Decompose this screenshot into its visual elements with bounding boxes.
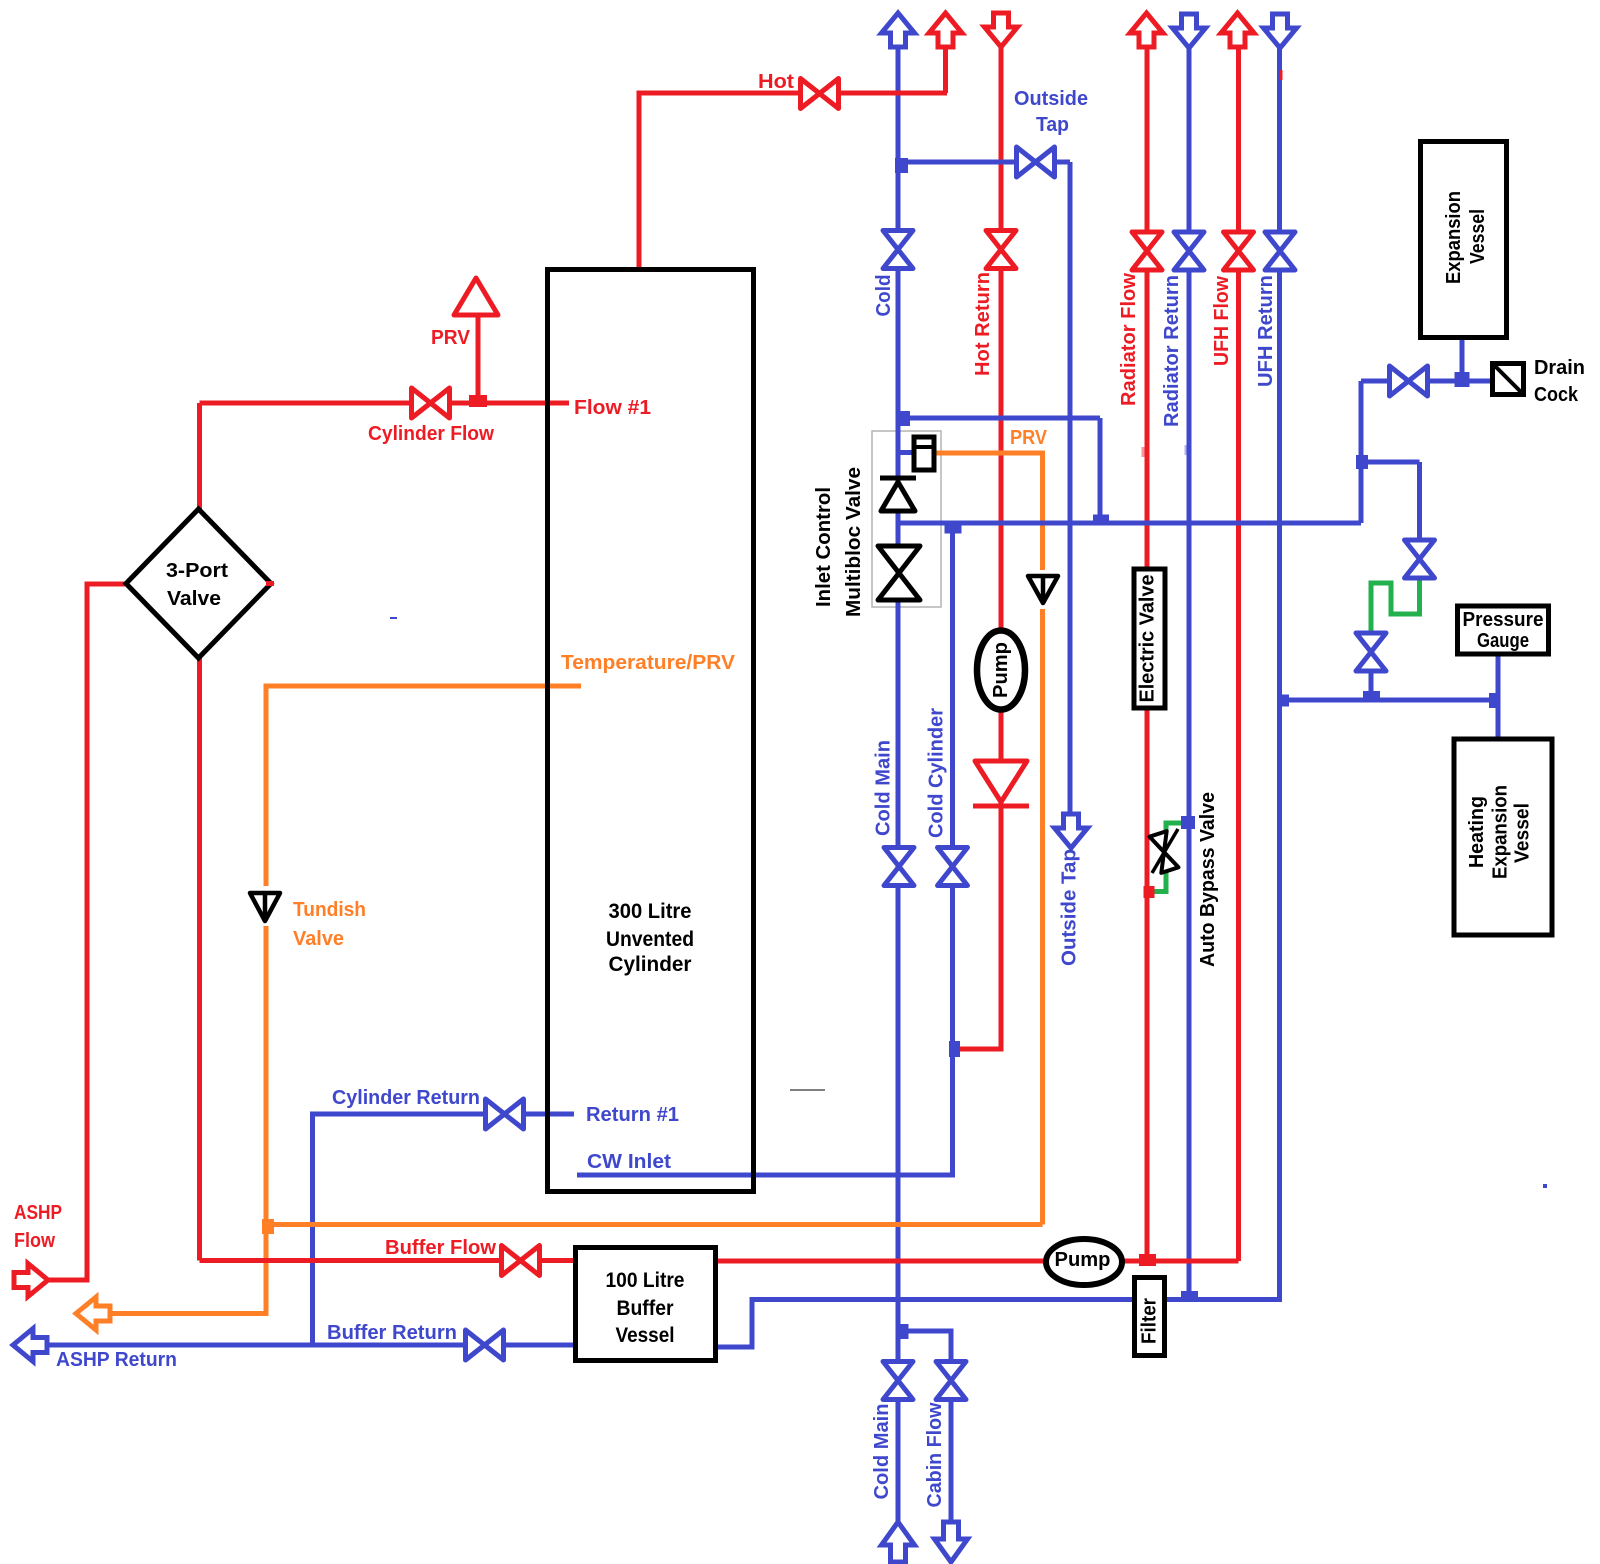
wire ufh flow vertical	[1236, 46, 1241, 1261]
3-port valve right port dot	[266, 581, 274, 586]
vessel expansion (potable)	[1421, 142, 1507, 338]
svg-text:Cold Main: Cold Main	[871, 1404, 893, 1500]
node cold feed tee y418	[899, 411, 910, 426]
node ufh return header tee	[1277, 695, 1289, 707]
svg-text:Electric Valve: Electric Valve	[1137, 575, 1159, 703]
wire cold feed horizontal y523	[898, 521, 1361, 526]
wire filling loop hose	[1371, 578, 1420, 634]
svg-text:Return #1: Return #1	[586, 1104, 679, 1126]
tundish on multibloc prv line	[1028, 576, 1058, 603]
arrow radiator flow out	[1130, 13, 1163, 47]
valve cylinder flow	[412, 388, 450, 418]
valve ufh return isolating	[1265, 232, 1295, 270]
wire outside tap horizontal	[898, 160, 1070, 165]
tundish on temperature/prv line	[250, 893, 280, 921]
valve filling loop upper	[1405, 540, 1435, 578]
multibloc prv cartridge	[914, 437, 934, 470]
multibloc stop valve	[878, 546, 920, 600]
wire radiator flow vertical	[1145, 46, 1150, 1261]
wire ashp flow	[44, 584, 130, 1280]
svg-text:CW Inlet: CW Inlet	[587, 1151, 671, 1173]
wire hot from cylinder top	[639, 93, 947, 270]
wire ufh return and bottom header	[713, 48, 1280, 1347]
valve cylinder return	[486, 1099, 524, 1129]
pressure gauge box	[1458, 606, 1549, 654]
vessel 300 litre unvented cylinder	[548, 270, 754, 1192]
node auto bypass top	[1181, 816, 1195, 829]
arrow radiator return in	[1173, 14, 1206, 48]
wire cold feed y418 overlay	[898, 416, 1100, 421]
wire cold feed y523 overlay	[898, 521, 1361, 526]
svg-text:Heating: Heating	[1466, 796, 1488, 868]
wire heating header y700	[1280, 698, 1498, 703]
svg-text:Expansion: Expansion	[1490, 785, 1512, 879]
vessel 100 litre buffer	[576, 1248, 716, 1361]
valve cold isolating	[883, 231, 913, 269]
svg-text:PRV: PRV	[431, 327, 471, 349]
svg-text:Vessel: Vessel	[1467, 209, 1489, 264]
svg-text:UFH Return: UFH Return	[1255, 275, 1277, 387]
check valve on hot return	[973, 761, 1029, 806]
wire outside tap vertical	[1068, 162, 1073, 816]
valve cold main bottom	[883, 1362, 913, 1400]
valve hot	[801, 79, 839, 109]
valve ufh flow isolating	[1224, 232, 1254, 270]
valve buffer return	[466, 1330, 504, 1360]
node pressure gauge tee	[1489, 693, 1500, 708]
arrow cold supply	[882, 13, 915, 47]
svg-text:Inlet Control: Inlet Control	[813, 487, 835, 607]
auto bypass valve symbol	[1150, 829, 1179, 873]
wire expansion vessel connector	[1460, 337, 1465, 383]
node radiator flow into pump line	[1139, 1254, 1156, 1266]
svg-text:Gauge: Gauge	[1477, 630, 1529, 652]
svg-text:Cock: Cock	[1534, 384, 1579, 406]
prv relief triangle	[454, 278, 498, 315]
node expansion vessel tee	[1455, 372, 1470, 387]
valve radiator return isolating	[1174, 232, 1204, 270]
svg-text:Temperature/PRV: Temperature/PRV	[561, 652, 736, 674]
wire ashp return / buffer return	[46, 1343, 578, 1348]
wire cylinder return	[313, 1114, 575, 1345]
node cold/outside-tap tee	[895, 158, 908, 173]
svg-text:ASHP Return: ASHP Return	[56, 1349, 177, 1371]
wire prv discharge horizontal y1224	[266, 1222, 1043, 1227]
wire hot return vertical	[953, 46, 1001, 1049]
svg-text:Unvented: Unvented	[606, 928, 694, 951]
svg-text:100 Litre: 100 Litre	[606, 1269, 685, 1292]
svg-text:Outside: Outside	[1014, 88, 1088, 110]
svg-text:Filter: Filter	[1139, 1298, 1161, 1344]
wire buffer flow to pumps and ufh	[713, 1259, 1239, 1264]
3-port valve diamond	[126, 509, 271, 658]
wire below filling valve2	[1369, 670, 1374, 700]
multibloc enclosure	[872, 431, 941, 607]
svg-text:3-Port: 3-Port	[166, 560, 228, 582]
svg-text:Pump: Pump	[1055, 1249, 1111, 1271]
svg-text:Buffer Return: Buffer Return	[327, 1322, 457, 1344]
svg-text:Outside Tap: Outside Tap	[1059, 849, 1081, 966]
svg-text:Hot Return: Hot Return	[972, 272, 994, 376]
svg-text:PRV: PRV	[1010, 427, 1048, 449]
wire cylinder flow y403	[200, 401, 570, 406]
arrow outside tap out	[1055, 814, 1088, 848]
wire filling riser x1361	[1359, 381, 1364, 523]
node auto bypass bottom	[1144, 886, 1155, 898]
svg-text:Cylinder Flow: Cylinder Flow	[368, 423, 494, 445]
valve filling loop lower	[1356, 633, 1386, 671]
wire buffer flow left	[200, 1258, 579, 1263]
wire temperature/prv discharge	[108, 686, 581, 1314]
wire auto bypass bottom link	[1152, 872, 1166, 892]
svg-text:Expansion: Expansion	[1443, 191, 1465, 284]
wire hot arrow riser	[943, 48, 948, 93]
svg-text:Valve: Valve	[167, 588, 221, 610]
svg-text:Auto Bypass Valve: Auto Bypass Valve	[1197, 792, 1219, 967]
svg-text:Tundish: Tundish	[293, 899, 366, 921]
arrow ufh return in	[1264, 14, 1297, 48]
valve outside tap	[1017, 147, 1055, 177]
pump heating (buffer flow)	[1046, 1239, 1122, 1285]
svg-text:Vessel: Vessel	[1512, 803, 1534, 863]
svg-text:Drain: Drain	[1534, 357, 1585, 379]
svg-text:Cylinder Return: Cylinder Return	[332, 1087, 480, 1109]
arrow cold main supply	[882, 1522, 915, 1562]
node filling riser tee y462	[1356, 455, 1368, 469]
wire multibloc prv discharge	[934, 453, 1043, 1225]
wire cold main bottom tee to cabin flow	[898, 1331, 951, 1522]
svg-text:Tap: Tap	[1036, 114, 1069, 136]
stray grey line artifact	[790, 1089, 825, 1091]
wire pressure gauge connector	[1496, 654, 1501, 740]
wire auto bypass top link	[1166, 823, 1186, 833]
valve cold main mid	[884, 848, 914, 886]
node prv tee	[469, 395, 487, 407]
arrow cabin flow out	[935, 1522, 968, 1562]
arrow prv discharge out	[76, 1297, 110, 1330]
arrow ashp return out	[13, 1329, 47, 1362]
svg-text:Cold: Cold	[873, 275, 895, 317]
stray blue dot	[1543, 1184, 1547, 1188]
wire cold main vertical	[896, 48, 901, 1522]
stray blue dash	[390, 617, 397, 619]
wire filling branch y462	[1361, 460, 1420, 465]
valve hot return isolating	[986, 231, 1016, 269]
node filling drop tee x1100	[1093, 515, 1109, 526]
svg-text:Cylinder: Cylinder	[609, 953, 692, 976]
valve cabin flow	[936, 1362, 966, 1400]
svg-text:Pressure: Pressure	[1463, 609, 1544, 631]
wire buffer flow right overlay	[713, 1259, 1239, 1264]
arrow hot out	[929, 13, 962, 47]
svg-text:Valve: Valve	[293, 928, 344, 950]
svg-text:Cabin Flow: Cabin Flow	[924, 1402, 946, 1507]
node radiator return into header	[1181, 1291, 1198, 1300]
svg-text:Vessel: Vessel	[616, 1324, 675, 1347]
node cold cylinder tee	[945, 524, 962, 534]
node cold main bottom tee	[899, 1324, 909, 1339]
valve cold cylinder mid	[938, 848, 968, 886]
svg-text:300 Litre: 300 Litre	[609, 900, 692, 923]
stray pink tick	[1142, 447, 1145, 457]
wire cold feed branch y418	[898, 416, 1100, 421]
svg-text:Buffer: Buffer	[617, 1297, 674, 1320]
valve drain line	[1390, 366, 1428, 396]
wire drain line y381	[1361, 379, 1492, 384]
svg-text:Multibloc Valve: Multibloc Valve	[843, 467, 865, 617]
arrow ashp flow in	[14, 1264, 48, 1297]
arrow hot return in	[985, 13, 1018, 47]
svg-text:Hot: Hot	[758, 71, 794, 93]
node hot return into cold cylinder	[949, 1041, 960, 1057]
wire outside tap horizontal overlay	[898, 160, 1070, 165]
svg-text:Buffer Flow: Buffer Flow	[385, 1237, 496, 1259]
wire radiator return vertical	[1187, 48, 1192, 1297]
valve buffer flow	[502, 1246, 540, 1276]
vessel heating expansion	[1454, 739, 1552, 935]
valve radiator flow isolating	[1132, 232, 1162, 270]
svg-text:Radiator Flow: Radiator Flow	[1118, 273, 1140, 406]
stray light blue tick	[1185, 445, 1188, 455]
svg-text:Radiator Return: Radiator Return	[1161, 275, 1183, 427]
stray red tick on ufh return stem	[1280, 70, 1283, 80]
arrow ufh flow out	[1221, 13, 1254, 47]
svg-text:Flow: Flow	[14, 1230, 55, 1252]
electric valve box	[1134, 569, 1165, 708]
svg-text:UFH Flow: UFH Flow	[1211, 276, 1233, 366]
filter box	[1135, 1278, 1165, 1356]
wire cold cylinder vertical and cw inlet	[577, 525, 953, 1175]
wire cold feed drop x1100	[1098, 418, 1103, 523]
multibloc check valve	[880, 478, 916, 511]
svg-text:Pump: Pump	[990, 642, 1012, 698]
drain cock symbol	[1493, 364, 1524, 395]
svg-text:Cold Main: Cold Main	[873, 740, 895, 836]
wire flow drop through 3-port valve	[197, 403, 202, 1261]
svg-text:Flow #1: Flow #1	[574, 397, 651, 419]
wire filling drop to valve	[1417, 462, 1422, 542]
svg-text:Cold Cylinder: Cold Cylinder	[926, 708, 948, 838]
svg-text:ASHP: ASHP	[14, 1202, 62, 1224]
pump primary (hot return)	[977, 631, 1025, 710]
node filling valve2 into header	[1363, 691, 1380, 701]
wire buffer flow left overlay	[200, 1258, 579, 1263]
node prv discharge tee	[262, 1219, 274, 1234]
wire prv riser	[476, 312, 481, 403]
wire multibloc prv stub	[898, 450, 916, 455]
